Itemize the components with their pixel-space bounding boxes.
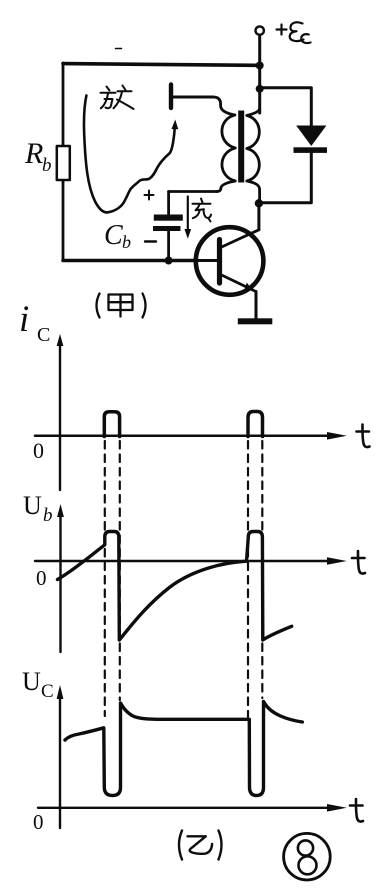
wire: left rail <box>62 63 65 260</box>
wire: Cb bottom lead <box>167 231 170 260</box>
transformer secondary (left) winding <box>213 97 235 192</box>
stray printing dash <box>116 48 122 50</box>
ground bar <box>238 318 272 324</box>
svg-text:C: C <box>104 220 123 251</box>
wire: collector riser <box>257 203 260 229</box>
svg-text:b: b <box>43 505 53 526</box>
graph3 x-axis <box>38 804 347 812</box>
wire: diode branch bottom <box>259 153 311 203</box>
svg-text:b: b <box>122 232 131 252</box>
graph2 x-axis <box>35 557 347 565</box>
wire: base lead <box>166 259 219 262</box>
svg-text:b: b <box>42 155 52 176</box>
graph2 label t <box>352 551 365 574</box>
graph1 x-axis <box>35 432 347 440</box>
label +Ec <box>277 22 311 43</box>
graph3 y-axis <box>57 685 64 828</box>
label minus of Cb <box>145 240 156 242</box>
label (甲) <box>97 294 146 318</box>
graph3 label Uc <box>22 667 54 702</box>
graph2 label 0 <box>36 566 47 590</box>
svg-text:U: U <box>22 667 41 696</box>
diode D <box>294 126 328 153</box>
graph2 waveform <box>58 532 292 641</box>
graph2 y-axis <box>57 504 64 652</box>
resistor Rb body <box>57 146 70 180</box>
arrow: charge direction <box>184 197 191 239</box>
label: discharge character 放 <box>101 86 134 110</box>
graph1 pulse 2 <box>248 412 263 437</box>
node: top rail junction <box>256 62 264 70</box>
svg-text:0: 0 <box>33 810 44 834</box>
wire: emitter to ground <box>255 292 258 319</box>
graph3 label 0 <box>33 810 44 834</box>
graph2 label Ub <box>23 491 53 526</box>
label Cb <box>104 220 131 252</box>
node: diode branch top junction <box>256 85 264 93</box>
dashed marker line 2a <box>247 441 249 717</box>
wire: secondary bottom to Cb <box>169 190 217 193</box>
dashed marker line 1a <box>104 441 106 716</box>
graph1 label t <box>357 425 370 448</box>
svg-text:R: R <box>24 137 43 170</box>
wire: bottom rail <box>63 259 196 263</box>
graph1 y-axis ic <box>57 334 64 490</box>
graph1 label ic <box>19 299 50 346</box>
node: collector junction <box>255 199 263 207</box>
supply terminal circle <box>256 26 264 34</box>
graph1 label 0 <box>33 438 44 463</box>
transformer core <box>238 111 244 183</box>
label (乙) <box>179 831 222 860</box>
capacitor Cb plates <box>153 215 183 232</box>
transistor Q circle <box>196 227 264 295</box>
transistor emitter stroke with arrow <box>221 275 256 293</box>
wire: Cb top lead <box>167 192 170 215</box>
wire: diode branch top <box>260 88 312 126</box>
terminal bar: secondary top stub <box>169 85 173 109</box>
svg-text:U: U <box>23 491 42 520</box>
dashed marker line 1b <box>119 441 121 700</box>
dashed marker line 2b <box>261 441 263 698</box>
label Rb <box>24 137 52 176</box>
wire: stub to secondary top <box>172 96 213 99</box>
svg-text:C: C <box>41 681 54 702</box>
transistor base bar <box>217 240 222 284</box>
svg-text:0: 0 <box>36 566 47 590</box>
label + of Cb <box>145 191 154 200</box>
node: Cb bottom junction <box>165 257 173 265</box>
svg-text:i: i <box>19 299 29 340</box>
wire: Ec vertical drop <box>258 35 261 113</box>
arrow: discharge path (curved) <box>84 96 178 213</box>
figure number 8 circled <box>284 833 331 880</box>
transformer primary (right) winding <box>247 108 260 203</box>
graph3 waveform <box>65 702 302 796</box>
graph1 pulse 1 <box>104 412 119 437</box>
wire: top rail <box>63 64 260 66</box>
transistor collector stroke <box>221 230 259 248</box>
svg-text:C: C <box>37 324 50 346</box>
graph3 label t <box>350 799 363 822</box>
label: charge character 充 <box>193 199 212 222</box>
svg-text:0: 0 <box>33 438 44 463</box>
